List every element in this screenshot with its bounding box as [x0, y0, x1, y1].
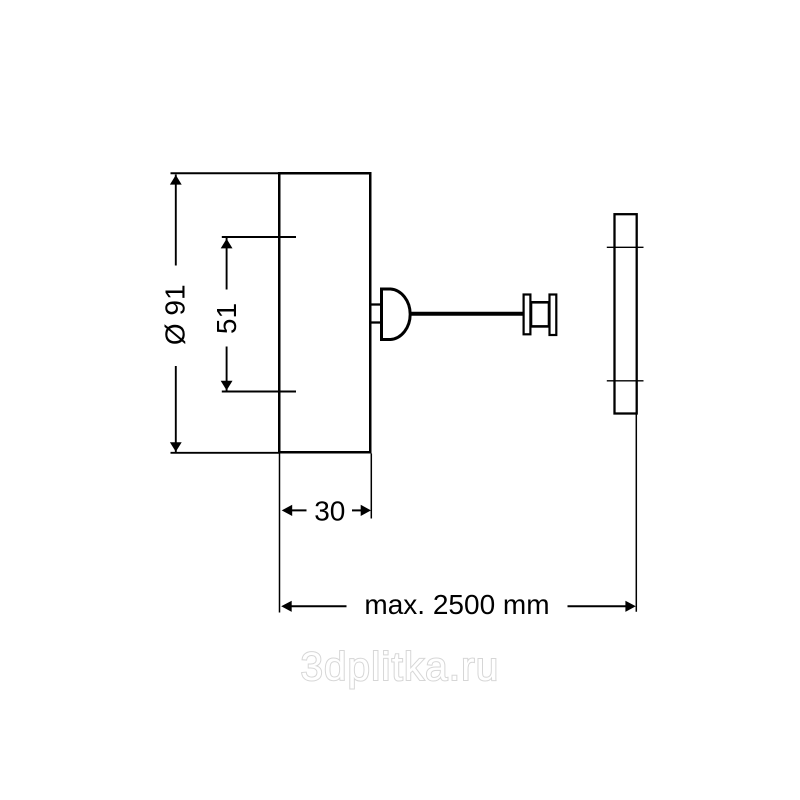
svg-text:Ø 91: Ø 91	[159, 284, 190, 345]
dimension line Ø91 lower segment	[175, 366, 177, 452]
extension line top (Ø91)	[171, 172, 281, 174]
dimension line Ø91 upper segment	[175, 175, 177, 266]
svg-text:max. 2500 mm: max. 2500 mm	[364, 589, 549, 620]
arrowhead 30 right	[361, 505, 371, 516]
extension line top (51)	[222, 236, 296, 238]
cord line	[411, 312, 524, 316]
svg-text:51: 51	[211, 303, 242, 334]
wall plate upper tick	[607, 246, 644, 248]
dome knob	[382, 289, 411, 340]
wall plate	[615, 214, 637, 413]
arrowhead max2500 left	[281, 601, 292, 612]
extension line right (max 2500)	[635, 415, 637, 612]
dimension line max2500 right shaft	[568, 605, 631, 607]
dimension line 30 right shaft	[352, 509, 366, 511]
body rectangle (housing, side view)	[279, 173, 370, 452]
arrowhead Ø91 bottom	[170, 442, 182, 452]
arrowhead max2500 right	[625, 601, 635, 612]
arrowhead 30 left	[282, 505, 293, 516]
arrowhead 51 top	[221, 239, 233, 249]
tab lower line (spindle hub)	[372, 321, 383, 323]
wall plate lower tick	[607, 380, 644, 382]
dimension line 51 lower segment	[226, 347, 228, 391]
svg-text:3dplitka.ru: 3dplitka.ru	[301, 645, 500, 689]
toggle left bar	[524, 295, 531, 335]
extension line right (30)	[370, 454, 372, 519]
toggle middle section	[531, 302, 549, 326]
tab upper line (spindle hub)	[372, 303, 383, 305]
dimension line max2500 left shaft	[285, 605, 347, 607]
extension line bottom (Ø91)	[171, 452, 281, 454]
arrowhead 51 bottom	[221, 381, 233, 391]
toggle right bar	[550, 295, 557, 336]
dimension line 30 left shaft	[285, 509, 307, 511]
svg-text:30: 30	[314, 496, 345, 527]
arrowhead Ø91 top	[170, 175, 182, 185]
extension line left (30 and max 2500)	[279, 454, 281, 613]
extension line bottom (51)	[222, 391, 296, 393]
dimension line 51 upper segment	[226, 238, 228, 290]
